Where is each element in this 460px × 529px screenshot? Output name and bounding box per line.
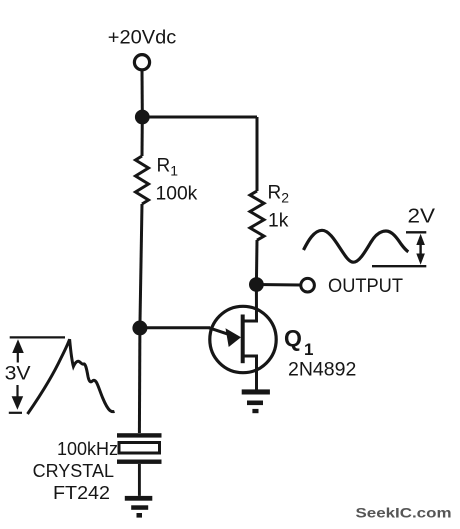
svg-text:100k: 100k: [156, 184, 198, 205]
svg-text:1k: 1k: [268, 211, 289, 232]
svg-text:+20Vdc: +20Vdc: [108, 27, 177, 48]
svg-text:FT242: FT242: [53, 482, 110, 503]
svg-text:100kHz: 100kHz: [57, 439, 118, 459]
svg-text:3V: 3V: [5, 363, 31, 385]
svg-text:CRYSTAL: CRYSTAL: [33, 461, 114, 481]
svg-text:OUTPUT: OUTPUT: [328, 276, 403, 297]
svg-text:SeekIC.com: SeekIC.com: [356, 506, 452, 522]
svg-text:2N4892: 2N4892: [288, 359, 356, 381]
svg-text:2V: 2V: [408, 204, 436, 227]
svg-text:1: 1: [304, 340, 313, 359]
svg-text:Q: Q: [284, 325, 302, 351]
